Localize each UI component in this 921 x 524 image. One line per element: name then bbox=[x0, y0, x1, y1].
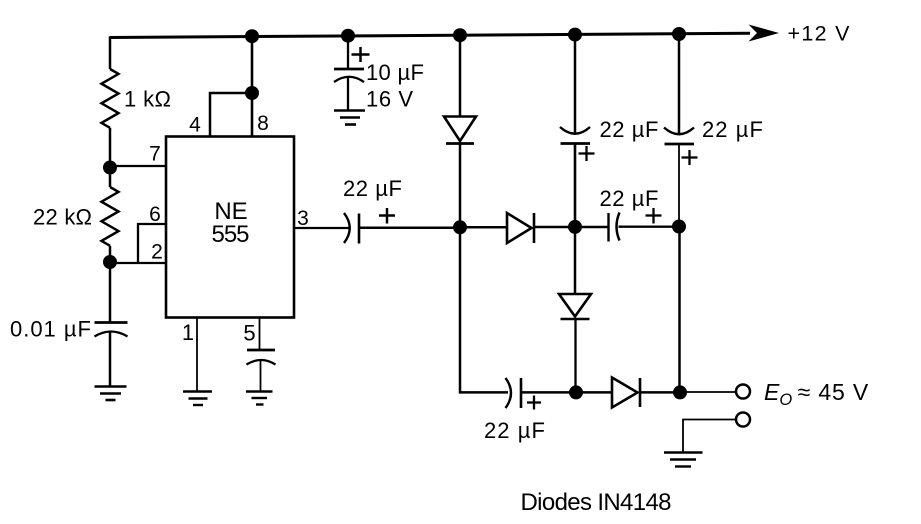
svg-text:8: 8 bbox=[257, 112, 269, 135]
op-amp U1 NE555 timer box bbox=[166, 137, 294, 318]
wire pin 8 bbox=[251, 35, 254, 137]
ground (10uF) bbox=[334, 111, 365, 125]
svg-text:2: 2 bbox=[151, 241, 163, 264]
wire node down to bottom row bbox=[460, 227, 508, 392]
svg-text:5: 5 bbox=[243, 321, 255, 346]
wire resistor to node bbox=[109, 246, 112, 262]
svg-text:4: 4 bbox=[189, 114, 201, 137]
node dot at pin2 junction bbox=[103, 255, 117, 269]
svg-text:7: 7 bbox=[149, 143, 161, 166]
wire pin 4 bbox=[210, 93, 252, 137]
svg-text:EO ≈ 45 V: EO ≈ 45 V bbox=[764, 379, 869, 409]
+12V arrowhead bbox=[749, 25, 780, 42]
wire capacitor to ground bbox=[109, 333, 112, 387]
node dot row227 x575 bbox=[568, 220, 582, 234]
capacitor 22uF bottom coupling bbox=[506, 378, 542, 410]
wire cap to node bbox=[574, 144, 577, 228]
diode D4 vertical IN4148 bbox=[559, 294, 591, 319]
svg-text:22 µF: 22 µF bbox=[484, 418, 545, 443]
wire rail to diode D1 bbox=[459, 35, 462, 116]
wire diode to node x575 bbox=[534, 226, 575, 229]
wire pin 5 bbox=[259, 317, 261, 350]
wire node to diode D4 bbox=[574, 227, 577, 294]
diode D2 horizontal IN4148 row227 bbox=[507, 213, 534, 243]
wire terminal to ground bbox=[683, 420, 736, 453]
diode D1 vertical IN4148 bbox=[444, 117, 476, 144]
svg-text:Diodes IN4148: Diodes IN4148 bbox=[521, 489, 672, 516]
svg-text:22 µF: 22 µF bbox=[600, 117, 659, 142]
capacitor 22uF mid coupling row227 bbox=[609, 208, 662, 242]
wire resistor to node bbox=[109, 128, 112, 187]
wire node to output terminal bbox=[680, 391, 735, 393]
ground (output) bbox=[664, 453, 703, 467]
node dot row227 x679 bbox=[672, 220, 686, 234]
node dot pin4/pin8 bbox=[245, 86, 259, 100]
node dot rail x575 bbox=[568, 28, 582, 42]
node dot rail x460 bbox=[453, 28, 467, 42]
node dot at pin7 junction bbox=[103, 161, 117, 175]
wire cap to node bbox=[360, 226, 460, 229]
svg-text:3: 3 bbox=[297, 207, 309, 230]
diode D3 horizontal IN4148 bbox=[612, 378, 640, 408]
wire cap to node bbox=[678, 144, 680, 227]
wire cap to ground bbox=[347, 77, 349, 110]
svg-text:0.01 µF: 0.01 µF bbox=[10, 317, 91, 342]
node dot output row x680 bbox=[673, 385, 687, 399]
svg-text:555: 555 bbox=[212, 221, 250, 248]
wire node to capacitor bbox=[109, 262, 112, 323]
node dot output row x576 bbox=[569, 385, 583, 399]
capacitor 22uF column x575 bbox=[560, 127, 595, 161]
wire pin 2 bbox=[110, 262, 166, 264]
capacitor 22uF column x679 bbox=[664, 128, 698, 166]
svg-text:+12 V: +12 V bbox=[788, 22, 851, 46]
wire node to diode D2 bbox=[460, 226, 507, 229]
wire rail to 22uF cap bbox=[678, 34, 681, 134]
svg-text:22 µF: 22 µF bbox=[600, 186, 659, 211]
wire node down to output row bbox=[678, 227, 681, 393]
wire rail to 22uF cap bbox=[574, 35, 577, 133]
svg-text:10 µF: 10 µF bbox=[366, 60, 424, 85]
wire left column drop from rail bbox=[109, 36, 112, 69]
svg-text:22 µF: 22 µF bbox=[343, 176, 402, 201]
wire rail to 10uF cap bbox=[347, 36, 349, 69]
wire diode to output row bbox=[574, 319, 576, 392]
node dot rail x252 bbox=[245, 29, 259, 43]
svg-text:16 V: 16 V bbox=[366, 87, 413, 112]
node dot rail x348 bbox=[341, 29, 355, 43]
ground terminal circle bbox=[736, 413, 750, 427]
capacitor pin5 bypass bbox=[247, 350, 276, 365]
svg-text:22 kΩ: 22 kΩ bbox=[33, 204, 92, 229]
capacitor 22uF pin3 coupling bbox=[344, 208, 395, 244]
svg-text:1 kΩ: 1 kΩ bbox=[124, 87, 171, 112]
capacitor 10uF 16V bbox=[334, 47, 370, 82]
output terminal circle Eo bbox=[736, 385, 750, 399]
wire diode to node bbox=[640, 391, 680, 394]
svg-text:1: 1 bbox=[182, 320, 194, 345]
capacitor 0.01 uF bbox=[95, 323, 128, 337]
node dot pin3 row x460 bbox=[453, 220, 467, 234]
node dot rail x679 bbox=[672, 27, 686, 41]
resistor 22 kOhm bbox=[102, 187, 119, 246]
wire pin 3 bbox=[294, 227, 350, 229]
wire node to diode D3 bbox=[576, 391, 612, 394]
wire diode to node bbox=[459, 144, 462, 228]
svg-text:22 µF: 22 µF bbox=[702, 117, 763, 142]
+12V supply rail wire bbox=[110, 33, 750, 37]
ground (0.01 uF) bbox=[95, 387, 127, 401]
wire mid cap left bbox=[582, 226, 608, 229]
wire pin 6 bracket bbox=[138, 224, 166, 263]
svg-text:6: 6 bbox=[149, 203, 161, 226]
ground (pin 5) bbox=[246, 392, 273, 405]
wire mid cap to node x679 bbox=[619, 226, 680, 228]
ground (pin 1) bbox=[183, 392, 212, 406]
wire capacitor to ground bbox=[260, 361, 262, 392]
wire pin 7 bbox=[110, 165, 166, 167]
wire pin 1 bbox=[196, 317, 198, 391]
wire cap to node bbox=[522, 391, 576, 394]
resistor 1 kOhm bbox=[102, 69, 119, 128]
